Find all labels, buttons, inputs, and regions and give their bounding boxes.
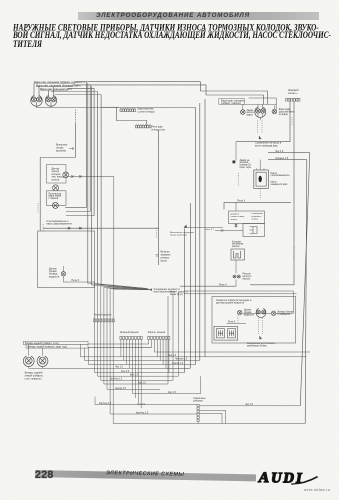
strip A pin drops (95, 282, 114, 424)
wire relay top line 1 (268, 152, 310, 154)
connector strip S2 (135, 125, 151, 128)
header band (78, 12, 319, 20)
footer bar text (106, 471, 184, 479)
bundle vertical v8 (184, 229, 186, 373)
coolant lamp (238, 310, 242, 314)
ladder wire I corner (98, 292, 179, 376)
wire into sub box (215, 230, 243, 232)
wire sensor to bundle with connectors (69, 175, 114, 177)
wire lamp3 pin up (48, 90, 50, 97)
ladder wire C (154, 351, 310, 353)
wiper motor sub box 2 (228, 329, 236, 338)
wire column bottom to bus (197, 422, 199, 424)
wire pin2 right bend (199, 410, 226, 423)
bundle vertical v3 (66, 88, 94, 215)
wire left long vertical (40, 158, 75, 232)
tick on horn switch wire (156, 255, 159, 257)
dashed line left of relay box (237, 173, 239, 186)
headlamp cluster left-inner (45, 95, 56, 106)
bundle vertical v2b long (91, 86, 93, 285)
wire pump top (259, 160, 261, 170)
frame right vertical outer (300, 153, 310, 406)
ground junction symbol (149, 288, 152, 291)
washer pump relay box (254, 170, 269, 188)
label: left headlamp circuit label 3 (40, 87, 72, 91)
wiper module glyph (234, 251, 241, 258)
bundle vertical v6 (195, 108, 197, 365)
wire pin1 left (95, 397, 197, 405)
wire module to relay line (235, 280, 237, 287)
label wire J (110, 379, 123, 381)
dashed drop below right cluster (258, 121, 263, 134)
label: left headlamp circuit label 1 (34, 80, 85, 84)
wire right lamp stubs (243, 104, 275, 109)
frame right vertical inner (305, 160, 307, 424)
wire lamp4 pin up (53, 87, 55, 97)
headlamp cluster left-outer (31, 95, 42, 106)
courtesy glyph (250, 227, 258, 234)
wire horn switch vertical (158, 130, 160, 265)
label wire pin1 a (137, 404, 146, 406)
bottom bus wire (113, 423, 305, 425)
fog lamp box (47, 191, 67, 206)
connector on wire (221, 229, 224, 232)
courtesy sub box (243, 224, 265, 237)
dashes along horn wire (156, 228, 158, 238)
bundle vertical v1b long (87, 83, 89, 283)
label wire pin4 (136, 412, 149, 414)
footer grey bar (35, 470, 256, 482)
wire from tail box lamp (63, 276, 94, 282)
ladder wire F corner (89, 364, 196, 366)
header band text (88, 12, 258, 19)
wire v4 top (51, 91, 98, 93)
label wire pin1 b (245, 404, 254, 406)
wire pin3 right bend (199, 413, 222, 423)
wire from mid-left arrow (185, 227, 224, 229)
connector strip A (94, 319, 115, 322)
frame R2 left edge (204, 99, 206, 357)
wiper motor sub box 1 (217, 329, 225, 338)
ladder wire G corner (166, 367, 190, 369)
connector strip S2 pin ticks (136, 124, 150, 125)
bundle vertical v4 (97, 92, 99, 285)
ground arrow bottom (259, 336, 262, 340)
wire relay X left drop (224, 202, 231, 209)
watermark (304, 488, 330, 492)
bundle vertical v1 (65, 82, 86, 208)
wiper motor twin box (214, 326, 238, 340)
wire pump box tick marks (257, 168, 264, 170)
page title (13, 24, 339, 49)
wire service socket solid (75, 123, 77, 158)
wire rear lamp 2 bottom (42, 366, 44, 368)
wire relay top line 2 (268, 159, 307, 161)
label wire M (168, 392, 176, 394)
dashes along left vertical (37, 203, 39, 213)
AUDI swoosh (290, 470, 336, 488)
ladder wire D with corner (81, 356, 307, 358)
wiper module box (231, 249, 245, 260)
ladder wire M (133, 376, 201, 393)
side marker lamp right (271, 311, 275, 315)
lamp above fog box (53, 185, 59, 191)
wire side lamp to right edge (276, 291, 294, 313)
rear lamp label strip 1 (24, 341, 89, 345)
tail lamp box left (38, 231, 95, 288)
label: left headlamp circuit label 2 (36, 83, 81, 87)
front turn signal box (212, 297, 296, 344)
relay X wire (231, 201, 291, 203)
connector strip S1 (120, 109, 136, 112)
wire drop to ignition terminal (235, 142, 237, 161)
connector below lamp box (235, 224, 238, 228)
lamp in fog box (52, 202, 58, 208)
AUDI logo (257, 470, 305, 488)
wire lamp cluster2 bottom (50, 102, 52, 107)
ladder wire H corner (95, 372, 185, 374)
connector strip S1 pin ticks (121, 108, 135, 109)
wire lamp bus in box (242, 312, 272, 314)
wire lamp1 pin up (33, 83, 35, 97)
wire module drop (235, 260, 237, 274)
wire box lamp top (62, 266, 64, 272)
wire v5 top (55, 94, 101, 96)
lamp right-1 (241, 110, 246, 115)
connector strip B (120, 336, 142, 339)
wire rear label1 right (88, 343, 149, 345)
wire above twin module (227, 322, 247, 324)
bundle vertical v2 (66, 85, 90, 212)
wire mid horizontal 2 (184, 293, 297, 295)
frame R1 outer (201, 82, 268, 105)
rear lamp label strip 2 (26, 345, 88, 349)
label wire F (172, 363, 184, 365)
ground arrow mid-left (184, 225, 187, 228)
glovebox lamp box (229, 211, 265, 224)
headlamp cluster right (255, 107, 266, 117)
label wire L (115, 388, 127, 390)
connector pair below module (233, 275, 240, 278)
washer pump inner (256, 172, 266, 186)
wire pin4 left (110, 413, 197, 415)
rear lamp right (37, 356, 48, 366)
bundle vertical v7 (189, 203, 191, 368)
ground junction fan wire 1 (95, 282, 149, 290)
wire right cluster bottom drop (258, 113, 263, 120)
wire S1 drop to S2 (116, 107, 146, 125)
wire feed to right lamp2 (249, 98, 277, 109)
strip C pin drops (149, 339, 169, 372)
label box: right headlamp (219, 99, 245, 105)
label wire I (130, 375, 139, 377)
frame R1 left edge (199, 103, 201, 360)
lamp sensor left (63, 172, 69, 178)
wire pump feed with connectors (43, 227, 159, 229)
connector strip C (148, 336, 170, 339)
wire horn pin 1 down (236, 101, 290, 142)
single connector column (197, 404, 199, 421)
arrow to service socket (69, 147, 74, 150)
dashed below pump feed (42, 224, 44, 232)
label wire K (138, 382, 146, 384)
wire lamp2 pin up (38, 87, 40, 97)
headlamp cluster in turn box (256, 308, 266, 317)
wire rear label2 drop (84, 348, 86, 361)
wire relay X drop to lamp box (235, 202, 237, 211)
wire rear lamp pins up (29, 345, 43, 356)
lamp in tail box (61, 272, 65, 276)
label wire G (115, 367, 124, 369)
dashes on horn drops (291, 117, 293, 125)
wire rear label1 drop (80, 344, 82, 357)
ladder wire J corner (101, 294, 173, 380)
footer page number 228 (35, 469, 54, 481)
ignition terminal block (233, 161, 236, 164)
lamp right-2 (272, 109, 277, 114)
frame R2 inner (206, 85, 264, 105)
wire sensor drop (113, 177, 115, 290)
wire label3 to v3 (68, 87, 94, 89)
dashed riser twin module (237, 316, 239, 323)
wire single pin1 long right (199, 405, 300, 407)
fan wires to ground junction (88, 284, 149, 290)
wire from label2 to right frame (73, 84, 206, 86)
washer pump motor core (259, 176, 262, 182)
dashes on horn drop low (293, 247, 295, 259)
label wire H (121, 371, 130, 373)
wire horn pin 2 down (250, 101, 294, 285)
wire rear lamp bottoms (29, 366, 189, 368)
connector strip horn (286, 98, 301, 101)
wire rear label3 drop (88, 348, 90, 365)
relay X wire 2 (180, 285, 236, 287)
wire lamp bottoms to bus (37, 102, 196, 107)
label wire D (168, 355, 177, 357)
dashed drop from x mark (259, 318, 263, 334)
ladder wire E corner (85, 359, 200, 361)
brake pad sensor label box (47, 165, 67, 184)
wire rear label2 right (88, 347, 152, 349)
dashed service socket wire (75, 110, 77, 124)
wire bus to S1 (101, 106, 119, 108)
wire right lamps top bus (243, 104, 276, 105)
ladder wire K corner (104, 296, 168, 384)
strip B pin drops (121, 339, 141, 408)
bundle vertical v5 (100, 95, 102, 287)
ladder wire L (107, 389, 160, 391)
wire mid horizontal 1 (184, 290, 293, 292)
label wire E (175, 359, 188, 361)
label wire pin1 a0 (99, 403, 112, 405)
ground arrow right (259, 136, 262, 140)
rear lamp left (23, 356, 34, 366)
wire pump bottom dashed (259, 188, 261, 199)
wire from label1 to right frame (75, 81, 201, 83)
